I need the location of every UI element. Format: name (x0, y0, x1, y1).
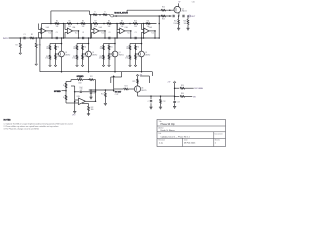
svg-text:24K: 24K (68, 26, 71, 28)
svg-text:56K: 56K (184, 23, 187, 25)
svg-text:24K: 24K (82, 26, 85, 28)
svg-text:R27: R27 (174, 21, 177, 23)
svg-text:10K: 10K (73, 48, 75, 50)
svg-text:Q1: Q1 (92, 52, 94, 54)
svg-text:C16: C16 (192, 2, 195, 4)
svg-text:3M9: 3M9 (91, 109, 94, 111)
svg-text:R28: R28 (184, 21, 187, 23)
svg-text:R11: R11 (137, 46, 140, 48)
svg-text:Uriah S. Burns: Uriah S. Burns (161, 129, 176, 132)
svg-text:R1: R1 (31, 34, 33, 36)
svg-text:R23: R23 (162, 19, 165, 21)
svg-text:R10: R10 (134, 21, 137, 23)
svg-text:R24: R24 (125, 85, 128, 87)
svg-text:C12: C12 (163, 101, 166, 103)
svg-text:08 Feb 2025: 08 Feb 2025 (184, 143, 196, 145)
svg-text:C11: C11 (93, 92, 96, 94)
svg-text:U2B: U2B (77, 96, 80, 98)
svg-text:Date: Date (184, 138, 188, 141)
svg-text:R10: R10 (46, 56, 49, 58)
svg-text:R9: R9 (74, 46, 76, 48)
svg-text:470K: 470K (99, 58, 102, 60)
svg-text:R12: R12 (110, 56, 113, 58)
svg-text:10uF: 10uF (79, 87, 82, 89)
svg-text:500K: 500K (78, 83, 81, 85)
svg-text:Document: Document (215, 133, 223, 136)
svg-text:R7: R7 (95, 21, 97, 23)
svg-text:R26: R26 (162, 7, 165, 9)
svg-text:R4: R4 (56, 21, 58, 23)
svg-text:470K: 470K (72, 58, 75, 60)
svg-text:Q1: Q1 (65, 52, 67, 54)
svg-text:2N4125: 2N4125 (182, 10, 187, 12)
svg-text:R30: R30 (181, 93, 184, 95)
svg-text:TL0: TL0 (151, 33, 154, 35)
svg-text:R5: R5 (69, 21, 71, 23)
svg-text:10K: 10K (100, 48, 102, 50)
svg-text:24K: 24K (94, 26, 97, 28)
svg-text:R9: R9 (127, 46, 129, 48)
svg-text:R12: R12 (84, 56, 87, 58)
svg-text:SPEED: SPEED (77, 76, 84, 78)
svg-text:24K: 24K (121, 26, 124, 28)
svg-text:TL0: TL0 (75, 33, 78, 35)
svg-text:Title: Title (159, 120, 162, 123)
svg-text:R12: R12 (137, 56, 140, 58)
svg-text:R10: R10 (100, 56, 103, 58)
svg-text:Q1: Q1 (119, 52, 121, 54)
svg-text:Q1: Q1 (145, 52, 147, 54)
svg-text:R12: R12 (57, 56, 60, 58)
svg-text:3. For Phase 45, change circu: 3. For Phase 45, change circuit to an LM… (4, 128, 39, 131)
svg-text:File: File (159, 133, 162, 135)
svg-text:R9: R9 (47, 46, 49, 48)
svg-text:R19: R19 (90, 76, 93, 78)
svg-text:Q6: Q6 (141, 88, 143, 90)
svg-text:R2: R2 (16, 44, 18, 46)
svg-text:R10: R10 (126, 56, 129, 58)
svg-text:R9: R9 (121, 21, 123, 23)
svg-text:R22: R22 (91, 107, 94, 109)
svg-text:SPEED: SPEED (54, 91, 61, 93)
svg-text:R11: R11 (57, 46, 60, 48)
svg-text:2N5952: 2N5952 (145, 54, 150, 56)
svg-text:2N5952: 2N5952 (92, 54, 97, 56)
svg-text:Phase 90 Clip: Phase 90 Clip (161, 124, 176, 126)
svg-text:Crybaby Circuit 5 — Phase 90 r: Crybaby Circuit 5 — Phase 90 r1.1 (161, 136, 190, 139)
svg-text:10K: 10K (126, 48, 128, 50)
svg-text:R9: R9 (100, 46, 102, 48)
svg-text:R11: R11 (84, 46, 87, 48)
svg-text:24K: 24K (108, 26, 111, 28)
svg-text:NOTES: NOTES (4, 120, 12, 122)
svg-text:9V BAT: 9V BAT (115, 91, 122, 94)
svg-text:R6: R6 (82, 21, 84, 23)
svg-text:2N5952: 2N5952 (65, 54, 70, 56)
svg-text:R11: R11 (110, 46, 113, 48)
svg-text:R8: R8 (108, 21, 110, 23)
svg-text:1. Optional TL072B w/ a super: 1. Optional TL072B w/ a super bright inc… (4, 122, 74, 125)
svg-text:470K: 470K (125, 58, 128, 60)
svg-text:2. Phase shifter cap values a: 2. Phase shifter cap values are copied f… (4, 125, 59, 128)
svg-text:R29: R29 (181, 85, 184, 87)
svg-text:2N4125: 2N4125 (141, 90, 146, 92)
svg-text:C3: C3 (135, 32, 137, 34)
svg-text:INPUT: INPUT (3, 38, 10, 40)
svg-text:C3: C3 (82, 32, 84, 34)
svg-text:R25: R25 (132, 81, 135, 83)
svg-text:2N5952: 2N5952 (119, 54, 124, 56)
svg-text:TL0: TL0 (127, 33, 130, 35)
svg-text:R10: R10 (73, 56, 76, 58)
svg-text:TL0: TL0 (101, 33, 104, 35)
svg-text:C3: C3 (56, 32, 58, 34)
svg-text:24K: 24K (134, 26, 137, 28)
svg-text:R21: R21 (101, 93, 104, 95)
svg-text:R11: R11 (147, 21, 150, 23)
svg-text:C3: C3 (108, 32, 110, 34)
svg-text:C13: C13 (177, 102, 180, 104)
svg-text:C1: C1 (23, 34, 25, 36)
svg-text:24K: 24K (56, 26, 59, 28)
svg-text:10K: 10K (46, 48, 48, 50)
svg-text:470K: 470K (45, 58, 48, 60)
svg-text:MODULATION: MODULATION (114, 11, 128, 14)
svg-text:Sheets: Sheets (215, 138, 220, 141)
svg-text:TL0: TL0 (48, 33, 51, 35)
svg-text:150K: 150K (174, 23, 177, 25)
svg-text:Q5: Q5 (182, 8, 184, 10)
svg-text:9VCLEAN: 9VCLEAN (194, 87, 203, 90)
svg-text:Author: Author (159, 126, 164, 129)
svg-text:Revision: Revision (159, 139, 166, 141)
svg-text:CLIP: CLIP (115, 94, 119, 96)
